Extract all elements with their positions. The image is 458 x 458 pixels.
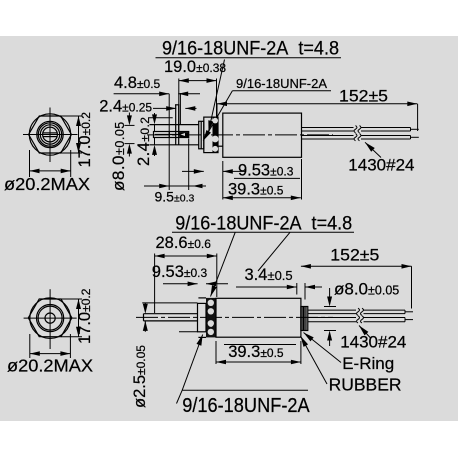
svg-text:152±5: 152±5	[339, 87, 388, 105]
leader from title to thread	[209, 60, 225, 132]
front view hexagon (bottom)	[28, 299, 72, 337]
svg-text:9/16-18UNF-2A t=4.8: 9/16-18UNF-2A t=4.8	[175, 213, 352, 234]
wire breaks (top)	[354, 126, 361, 141]
svg-text:1430#24: 1430#24	[340, 333, 406, 352]
front view crosshair (bottom)	[24, 317, 77, 319]
17.0 dimension (top front)	[61, 115, 82, 117]
svg-text:4.8±0.5: 4.8±0.5	[114, 74, 161, 92]
motor body	[223, 113, 302, 157]
motor body (bottom)	[216, 298, 301, 337]
hex nut side view	[204, 117, 218, 153]
2.4 arrows	[154, 113, 156, 116]
svg-text:9/16-18UNF-2A: 9/16-18UNF-2A	[236, 76, 327, 91]
wires (bottom)	[308, 310, 413, 322]
dia 20.2 MAX dimension (bottom front)	[29, 334, 31, 358]
thread block (black with white circles)	[206, 298, 216, 338]
dia 20.2 MAX dimension (top front)	[29, 150, 31, 177]
shaft	[154, 132, 189, 138]
side view centerline	[147, 134, 333, 136]
17.0 dimension (bottom front)	[61, 298, 82, 300]
svg-text:152±5: 152±5	[330, 247, 379, 265]
svg-text:9/16-18UNF-2A: 9/16-18UNF-2A	[182, 395, 310, 417]
plate	[175, 105, 177, 145]
svg-text:RUBBER: RUBBER	[329, 375, 402, 395]
shaft (bottom)	[144, 313, 198, 315]
svg-text:17.0±0.2: 17.0±0.2	[76, 288, 94, 344]
svg-text:9.53±0.3: 9.53±0.3	[152, 263, 208, 281]
svg-text:ø2.5±0.05: ø2.5±0.05	[131, 345, 149, 408]
svg-text:3.4±0.5: 3.4±0.5	[245, 266, 293, 284]
front view rings	[37, 121, 63, 147]
svg-text:39.3±0.5: 39.3±0.5	[228, 181, 284, 199]
end cap with hatch	[301, 307, 308, 331]
wire breaks (bottom)	[357, 308, 364, 323]
wires (top)	[302, 128, 419, 140]
front view hexagon	[29, 116, 72, 153]
svg-text:9/16-18UNF-2A t=4.8: 9/16-18UNF-2A t=4.8	[162, 39, 339, 60]
dia2.5 arrows	[144, 303, 146, 305]
front view outer circle	[29, 114, 70, 155]
plate ext stubs	[179, 331, 198, 333]
svg-text:2.4±0.25: 2.4±0.25	[99, 97, 152, 115]
aux line	[148, 117, 173, 119]
slot	[43, 132, 57, 134]
svg-text:28.6±0.6: 28.6±0.6	[156, 234, 212, 252]
rubber boss	[150, 124, 199, 126]
side view centerline (bottom)	[136, 316, 333, 318]
svg-text:ø20.2MAX: ø20.2MAX	[4, 174, 90, 194]
front view crosshair	[23, 134, 78, 136]
front view rings (bottom)	[37, 305, 64, 332]
svg-text:E-Ring: E-Ring	[342, 354, 394, 373]
nut-body link lines	[218, 145, 223, 147]
svg-text:9.53±0.3: 9.53±0.3	[238, 161, 294, 179]
svg-text:17.0±0.2: 17.0±0.2	[76, 112, 94, 168]
svg-text:1430#24: 1430#24	[348, 155, 414, 174]
svg-text:ø20.2MAX: ø20.2MAX	[7, 355, 93, 375]
front view outer circle (bottom)	[30, 298, 71, 339]
svg-text:39.3±0.5: 39.3±0.5	[228, 343, 284, 361]
washer	[199, 121, 204, 149]
svg-text:19.0±0.38: 19.0±0.38	[164, 58, 226, 76]
plate (bottom)	[198, 303, 207, 331]
dia8 arrows	[128, 113, 130, 118]
